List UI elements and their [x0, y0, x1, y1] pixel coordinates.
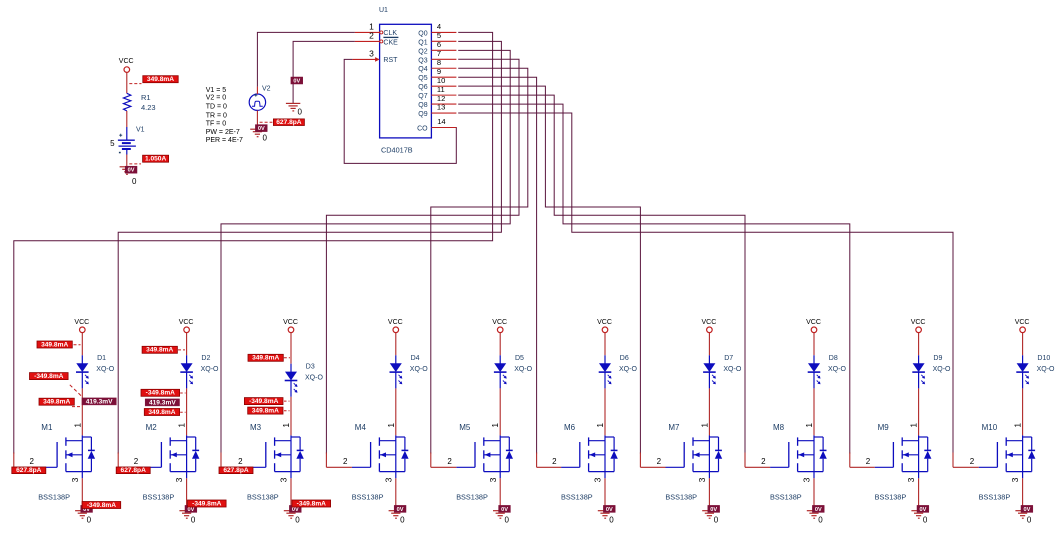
current label -349.8mA (cell 1 bottom) [82, 502, 121, 509]
current label -349.8mA (cell 1) [30, 373, 69, 380]
svg-text:D7: D7 [724, 355, 733, 362]
wire V2 to CLK [257, 32, 355, 86]
svg-text:D8: D8 [829, 355, 838, 362]
svg-text:V1: V1 [136, 126, 145, 133]
wire R1 to V1 [126, 111, 128, 127]
svg-text:U1: U1 [379, 7, 388, 14]
svg-text:D2: D2 [201, 355, 210, 362]
svg-text:1: 1 [490, 423, 500, 428]
svg-text:CO: CO [417, 125, 428, 132]
pin 12 Q8 [431, 94, 456, 104]
wire CKE to ground net [293, 41, 355, 103]
svg-text:3: 3 [383, 477, 393, 482]
svg-text:XQ-O: XQ-O [96, 366, 114, 373]
svg-text:-349.8mA: -349.8mA [249, 398, 279, 405]
ground (cell 8) [807, 511, 821, 519]
current label 349.8mA (cell 2 top) [142, 346, 177, 353]
svg-text:627.8pA: 627.8pA [223, 467, 249, 474]
wire VCC to D8 [813, 333, 815, 356]
wire net Q6 [458, 86, 640, 453]
current label -349.8mA (cell 3 bottom) [292, 500, 331, 507]
IC U1 designator [379, 7, 388, 14]
node VCC (cell 9) [911, 319, 926, 332]
ground (cell 7) [702, 511, 716, 519]
voltage label 0V (cell 8) [812, 505, 824, 512]
current label 349.8mA (cell 1 top) [37, 341, 72, 348]
pin 2 (M8 gate) [745, 453, 770, 468]
pin 2 (M3 gate) [221, 453, 247, 468]
svg-text:XQ-O: XQ-O [1037, 366, 1055, 373]
pin 3 (M8 source) [802, 477, 814, 507]
transistor M8 BSS138P [770, 423, 827, 502]
LED D7 [703, 355, 742, 388]
svg-text:M3: M3 [250, 423, 262, 432]
pin 1 (M10 drain) [1013, 423, 1023, 428]
svg-text:349.8mA: 349.8mA [147, 76, 174, 83]
svg-text:3: 3 [369, 49, 374, 59]
current probe dashes V2 [260, 121, 273, 123]
svg-text:2: 2 [447, 457, 452, 466]
current label -349.8mA (cell 2) [141, 389, 180, 396]
svg-text:Q7: Q7 [418, 93, 427, 100]
svg-text:-349.8mA: -349.8mA [192, 500, 222, 507]
svg-text:V2: V2 [262, 86, 271, 93]
voltage label 0V (cell 2) [185, 505, 197, 512]
wire VCC to D4 [395, 333, 397, 356]
current probe dashes R1 [129, 83, 141, 85]
current label 1.050A (V1) [143, 155, 169, 162]
svg-text:419.3mV: 419.3mV [86, 398, 113, 405]
svg-text:1: 1 [386, 423, 396, 428]
node 0 (CKE ground) [298, 108, 303, 117]
wire net Q9 [458, 113, 953, 453]
svg-text:1: 1 [177, 423, 187, 428]
svg-text:1: 1 [699, 423, 709, 428]
pin 1 (M9 drain) [909, 423, 919, 428]
pin 2 (M6 gate) [537, 453, 562, 468]
svg-text:349.8mA: 349.8mA [43, 399, 70, 406]
pin 2 (M1 gate) [14, 453, 39, 468]
svg-text:0V: 0V [606, 507, 613, 513]
svg-text:Q3: Q3 [418, 57, 427, 64]
svg-text:-349.8mA: -349.8mA [297, 500, 327, 507]
svg-text:M7: M7 [668, 423, 680, 432]
svg-text:0: 0 [818, 515, 823, 524]
pin 10 Q6 [431, 76, 456, 86]
svg-text:8: 8 [437, 58, 441, 67]
svg-text:0: 0 [132, 177, 137, 186]
svg-text:VCC: VCC [119, 58, 134, 65]
svg-text:-349.8mA: -349.8mA [34, 373, 64, 380]
wire net Q7 [458, 95, 745, 453]
svg-text:BSS138P: BSS138P [665, 493, 697, 502]
transistor M3 BSS138P [247, 423, 304, 502]
wire D8 to M8 drain [813, 388, 815, 435]
pin 5 Q1 [431, 31, 456, 41]
battery V1 [110, 126, 145, 154]
svg-text:3: 3 [593, 477, 603, 482]
node 0 (cell 5) [505, 515, 510, 524]
svg-text:7: 7 [437, 49, 441, 58]
svg-text:2: 2 [29, 457, 34, 466]
svg-text:2: 2 [970, 457, 975, 466]
pin 3 (M10 source) [1010, 477, 1022, 507]
svg-text:0V: 0V [397, 507, 404, 513]
svg-text:6: 6 [437, 40, 441, 49]
svg-text:Q4: Q4 [418, 66, 427, 73]
svg-text:M6: M6 [564, 423, 576, 432]
svg-text:627.8pA: 627.8pA [121, 467, 147, 474]
svg-text:1: 1 [909, 423, 919, 428]
pin 3 (M6 source) [593, 477, 605, 507]
voltage label 0V (cell 5) [499, 505, 511, 512]
svg-text:5: 5 [110, 139, 115, 148]
pin 2 CKE [355, 31, 383, 43]
node 0 (cell 2) [191, 515, 196, 524]
svg-text:0V: 0V [128, 168, 135, 174]
svg-text:RST: RST [383, 57, 398, 64]
voltage label 0V (V2 ground) [255, 125, 267, 132]
node 0 (V1 ground) [132, 177, 137, 186]
wire VCC to D10 [1022, 333, 1024, 356]
pin 3 (M4 source) [383, 477, 395, 507]
svg-text:2: 2 [343, 457, 348, 466]
pin 1 (M7 drain) [699, 423, 709, 428]
ground (cell 6) [598, 511, 612, 519]
pin 2 (M5 gate) [431, 453, 457, 468]
svg-text:BSS138P: BSS138P [143, 493, 175, 502]
node VCC (cell 3) [283, 319, 298, 332]
current probe dashes (D3 top) [284, 357, 290, 359]
wire net Q0 [14, 32, 493, 453]
pin 3 (M7 source) [697, 477, 709, 507]
svg-text:0V: 0V [187, 507, 194, 513]
pin 1 (M6 drain) [595, 423, 605, 428]
svg-text:9: 9 [437, 67, 441, 76]
svg-text:M1: M1 [41, 423, 53, 432]
svg-text:349.8mA: 349.8mA [252, 355, 279, 362]
node 0 (cell 9) [923, 515, 928, 524]
pin 4 Q0 [431, 22, 456, 32]
svg-text:CD4017B: CD4017B [381, 146, 413, 155]
svg-text:XQ-O: XQ-O [305, 375, 323, 382]
voltage label 0V (cell 6) [603, 505, 615, 512]
ground (cell 1) [75, 511, 89, 519]
node 0 (cell 3) [295, 515, 300, 524]
node VCC (cell 5) [492, 319, 507, 332]
pin 1 (M8 drain) [804, 423, 814, 428]
wire VCC to R1 [126, 72, 128, 93]
wire D7 to M7 drain [708, 388, 710, 435]
svg-text:3: 3 [70, 477, 80, 482]
svg-text:D4: D4 [411, 355, 420, 362]
svg-text:2: 2 [866, 457, 871, 466]
transistor M9 BSS138P [875, 423, 932, 502]
svg-text:D5: D5 [515, 355, 524, 362]
svg-text:0V: 0V [501, 507, 508, 513]
LED D4 [390, 355, 429, 388]
svg-text:CLK: CLK [383, 30, 397, 37]
svg-text:Q1: Q1 [418, 39, 427, 46]
node VCC (cell 10) [1015, 319, 1030, 332]
ground (cell 10) [1015, 511, 1029, 519]
svg-text:D6: D6 [620, 355, 629, 362]
ground (cell 4) [389, 511, 403, 519]
svg-text:XQ-O: XQ-O [828, 366, 846, 373]
current probe dashes V1 [129, 163, 141, 165]
svg-text:Q9: Q9 [418, 111, 427, 118]
voltage label 0V (cell 4) [394, 505, 406, 512]
ground (V1) [120, 167, 134, 175]
svg-text:D9: D9 [933, 355, 942, 362]
current label 349.8mA (cell 1 mid) [39, 398, 74, 405]
svg-text:0V: 0V [710, 507, 717, 513]
current probe dashes (D2 top) [178, 349, 185, 351]
pin 9 Q5 [431, 67, 456, 77]
svg-text:0V: 0V [258, 126, 265, 132]
svg-text:3: 3 [279, 477, 289, 482]
LED D5 [494, 355, 533, 388]
svg-text:13: 13 [437, 103, 445, 112]
svg-text:627.8pA: 627.8pA [276, 119, 302, 126]
node 0 (cell 7) [714, 515, 719, 524]
svg-text:XQ-O: XQ-O [410, 366, 428, 373]
svg-text:0: 0 [505, 515, 510, 524]
svg-text:0: 0 [923, 515, 928, 524]
wire net Q8 [458, 104, 850, 453]
svg-text:XQ-O: XQ-O [619, 366, 637, 373]
current label 627.8pA (cell 3 gate) [219, 467, 253, 474]
svg-text:4: 4 [437, 22, 441, 31]
pin 3 (M9 source) [906, 477, 918, 507]
current label 627.8pA (cell 1 gate) [12, 467, 46, 474]
transistor M6 BSS138P [561, 423, 618, 502]
svg-text:2: 2 [238, 457, 243, 466]
pin 2 (M2 gate) [118, 453, 143, 468]
wire VCC to D3 [290, 333, 292, 364]
ground (cell 3) [284, 511, 298, 519]
pin 3 RST [352, 49, 379, 62]
svg-text:1: 1 [281, 423, 291, 428]
pulse source V2 [249, 86, 270, 111]
svg-text:2: 2 [552, 457, 557, 466]
LED D10 [1016, 355, 1055, 388]
wire D6 to M6 drain [604, 388, 606, 435]
ground (cell 5) [493, 511, 507, 519]
pin 3 (M2 source) [174, 477, 186, 507]
voltage label 419.3mV (cell 1) [82, 398, 116, 405]
voltage label 0V (cell 7) [708, 505, 720, 512]
ground (V2) [250, 129, 264, 137]
svg-text:1: 1 [804, 423, 814, 428]
svg-text:2: 2 [761, 457, 766, 466]
current label 349.8mA (cell 3 mid) [248, 407, 283, 414]
svg-text:M2: M2 [146, 423, 158, 432]
pin 2 (M9 gate) [850, 453, 875, 468]
svg-text:VCC: VCC [492, 319, 507, 326]
node VCC (cell 8) [806, 319, 821, 332]
svg-text:M5: M5 [459, 423, 471, 432]
voltage label 419.3mV (cell 2) [145, 399, 179, 406]
wire net Q3 [326, 59, 519, 453]
pin 1 (M5 drain) [490, 423, 500, 428]
wire D1 to M1 drain [81, 388, 83, 435]
svg-text:PW = 2E-7: PW = 2E-7 [206, 129, 240, 136]
svg-text:3: 3 [174, 477, 184, 482]
wire D4 to M4 drain [395, 388, 397, 435]
wire D9 to M9 drain [918, 388, 920, 435]
svg-text:V2 = 0: V2 = 0 [206, 94, 227, 101]
ground (cell 9) [911, 511, 925, 519]
svg-text:419.3mV: 419.3mV [149, 399, 176, 406]
LED D2 [180, 355, 219, 388]
svg-text:D1: D1 [97, 355, 106, 362]
svg-text:0: 0 [263, 134, 268, 143]
wire net Q5 [458, 77, 536, 453]
svg-text:0: 0 [298, 108, 303, 117]
LED D1 [76, 355, 115, 388]
svg-text:1.050A: 1.050A [145, 156, 167, 163]
pin 3 (M1 source) [70, 477, 82, 507]
transistor M7 BSS138P [665, 423, 722, 502]
pin 1 (M4 drain) [386, 423, 396, 428]
svg-text:14: 14 [437, 117, 445, 126]
svg-text:TD = 0: TD = 0 [206, 104, 227, 111]
LED D8 [808, 355, 847, 388]
svg-text:Q6: Q6 [418, 84, 427, 91]
svg-text:BSS138P: BSS138P [770, 493, 802, 502]
node 0 (cell 1) [87, 515, 92, 524]
svg-text:0V: 0V [293, 78, 300, 84]
svg-text:VCC: VCC [806, 319, 821, 326]
ground (cell 2) [179, 511, 193, 519]
svg-text:XQ-O: XQ-O [514, 366, 532, 373]
voltage label 0V (cell 3) [289, 505, 301, 512]
svg-text:0: 0 [714, 515, 719, 524]
svg-text:0V: 0V [292, 507, 299, 513]
svg-text:349.8mA: 349.8mA [146, 347, 173, 354]
svg-text:0: 0 [609, 515, 614, 524]
node VCC (cell 2) [179, 319, 194, 332]
svg-text:Q0: Q0 [418, 30, 427, 37]
current label 627.8pA (V2) [273, 119, 304, 126]
pin 1 (M1 drain) [72, 423, 82, 428]
svg-text:349.8mA: 349.8mA [41, 341, 68, 348]
wire VCC to D2 [186, 333, 188, 356]
svg-text:5: 5 [437, 31, 441, 40]
wire D3 to M3 drain [290, 397, 292, 436]
current label 349.8mA (cell 3 top) [248, 354, 283, 361]
svg-text:Q5: Q5 [418, 75, 427, 82]
svg-text:PER = 4E-7: PER = 4E-7 [206, 137, 243, 144]
IC U1 part number CD4017B [381, 146, 413, 155]
wire VCC to D1 [81, 333, 83, 356]
wire D2 to M2 drain [186, 388, 188, 435]
svg-text:0: 0 [295, 515, 300, 524]
node VCC (V1 branch) [119, 58, 134, 72]
LED D9 [912, 355, 951, 388]
svg-text:VCC: VCC [388, 319, 403, 326]
wire D5 to M5 drain [499, 388, 501, 435]
svg-text:M4: M4 [355, 423, 367, 432]
svg-text:3: 3 [1010, 477, 1020, 482]
svg-text:VCC: VCC [1015, 319, 1030, 326]
svg-text:1: 1 [595, 423, 605, 428]
pin 13 Q9 [431, 103, 456, 113]
svg-text:3: 3 [802, 477, 812, 482]
ground (CKE) [286, 103, 300, 111]
svg-text:CKE: CKE [383, 40, 398, 47]
svg-text:627.8pA: 627.8pA [16, 467, 42, 474]
current probe dashes (D1 top) [74, 344, 81, 346]
resistor R1 [124, 93, 156, 112]
pin 2 (M10 gate) [953, 453, 979, 468]
transistor M2 BSS138P [143, 423, 200, 502]
svg-text:1: 1 [72, 423, 82, 428]
svg-text:XQ-O: XQ-O [933, 366, 951, 373]
current label -349.8mA (cell 2 bottom) [188, 500, 227, 507]
svg-text:VCC: VCC [179, 319, 194, 326]
node VCC (cell 4) [388, 319, 403, 332]
svg-text:M9: M9 [878, 423, 890, 432]
current label -349.8mA (cell 3) [244, 398, 283, 405]
svg-text:10: 10 [437, 76, 445, 85]
svg-text:1: 1 [1013, 423, 1023, 428]
svg-text:V1 = 5: V1 = 5 [206, 87, 227, 94]
svg-text:M10: M10 [982, 423, 998, 432]
pin 3 (M5 source) [488, 477, 500, 507]
svg-text:0: 0 [1027, 515, 1032, 524]
wire RST to CO loop [344, 59, 456, 163]
svg-text:BSS138P: BSS138P [38, 493, 70, 502]
wire V1 to ground [126, 155, 128, 168]
wire VCC to D6 [604, 333, 606, 356]
pin 1 CLK [355, 22, 383, 34]
node VCC (cell 1) [74, 319, 89, 332]
pin 6 Q2 [431, 40, 456, 50]
current label 349.8mA (cell 2 mid) [144, 409, 179, 416]
pin 2 (M7 gate) [640, 453, 665, 468]
svg-text:0V: 0V [1023, 507, 1030, 513]
probe dashes (cell 3) [284, 401, 290, 411]
node 0 (V2 ground) [263, 134, 268, 143]
wire net Q2 [221, 50, 510, 453]
voltage label 0V (cell 1) [81, 505, 93, 512]
node 0 (cell 8) [818, 515, 823, 524]
voltage label 0V (V1 ground) [125, 166, 137, 173]
pin 3 (M3 source) [279, 477, 291, 507]
transistor M1 BSS138P [38, 423, 95, 502]
svg-text:0: 0 [400, 515, 405, 524]
pin 1 (M2 drain) [177, 423, 187, 428]
wire V2 bottom to ground [256, 110, 258, 125]
svg-text:2: 2 [369, 31, 374, 41]
svg-text:2: 2 [657, 457, 662, 466]
svg-text:12: 12 [437, 94, 445, 103]
svg-text:VCC: VCC [74, 319, 89, 326]
svg-text:D3: D3 [306, 364, 315, 371]
svg-text:0: 0 [87, 515, 92, 524]
svg-text:-349.8mA: -349.8mA [146, 390, 176, 397]
svg-text:Q8: Q8 [418, 102, 427, 109]
svg-text:0: 0 [191, 515, 196, 524]
pin 2 (M4 gate) [326, 453, 352, 468]
node VCC (cell 7) [702, 319, 717, 332]
wire V2 top stub [256, 87, 258, 94]
probe dashes (cell 1 low) [72, 406, 80, 408]
svg-text:BSS138P: BSS138P [247, 493, 279, 502]
voltage label 0V (cell 10) [1021, 505, 1033, 512]
